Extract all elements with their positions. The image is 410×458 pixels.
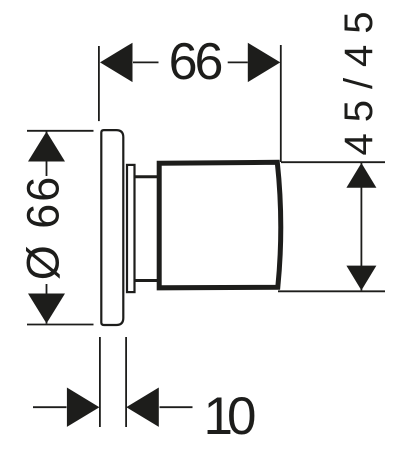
svg-text:66: 66 (169, 33, 222, 91)
dim Ø66: dimension line upper segment (46, 132, 48, 177)
dim Ø66: bottom extension line (27, 324, 94, 326)
dim 45/45: down arrowhead (346, 266, 376, 291)
stem top edge (135, 175, 161, 178)
dim 10: left arrowhead (67, 388, 100, 427)
dim 66: dimension line left segment (133, 61, 159, 63)
dim 66: left extension line (98, 46, 100, 121)
dim 10: left extension line (99, 337, 101, 427)
dim Ø66: down arrowhead (28, 294, 65, 324)
dim 45/45: bottom extension line (278, 290, 385, 292)
dim 66: right arrowhead (248, 43, 280, 82)
stem bottom edge (135, 279, 161, 282)
dim 45/45: top extension line (281, 161, 385, 163)
dim 66: right extension line (280, 45, 282, 162)
dim 66: dimension line right segment (228, 61, 248, 63)
svg-text:Ø 66: Ø 66 (18, 175, 69, 281)
dim 66: left arrowhead (100, 43, 133, 82)
dim 10: right extension line (125, 337, 127, 427)
dim 45/45: up arrowhead (346, 163, 376, 188)
escutcheon plate (side view) (101, 130, 123, 325)
svg-text:45/45: 45/45 (337, 0, 381, 155)
dim 10: left leader line (33, 406, 67, 408)
svg-text:10: 10 (204, 387, 255, 446)
dim Ø66: top extension line (27, 130, 94, 132)
dim 10: right leader line (160, 406, 193, 408)
dim 45/45: dimension line (360, 163, 362, 290)
dim Ø66: dimension line lower segment (46, 284, 48, 324)
dim 10: right arrowhead (126, 388, 159, 427)
sleeve (127, 165, 135, 292)
handle knob outline (159, 162, 281, 287)
dim Ø66: up arrowhead (28, 132, 65, 162)
